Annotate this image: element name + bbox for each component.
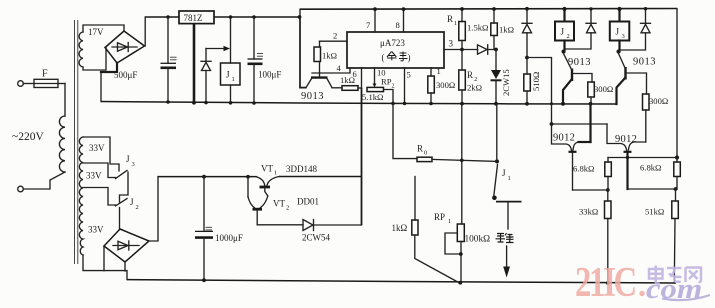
node 33k rail: [606, 281, 610, 285]
svg-text:510Ω: 510Ω: [531, 72, 541, 91]
wire tap3 step: [83, 188, 116, 206]
wire zener to J1 with arrow: [206, 46, 230, 51]
wire VT1 collector to 176-line: [279, 176, 362, 178]
svg-text:9013: 9013: [633, 57, 656, 68]
svg-text:1kΩ: 1kΩ: [499, 25, 514, 35]
svg-text:33kΩ: 33kΩ: [579, 207, 598, 217]
node R1 rail: [460, 7, 464, 11]
node pin7 rail: [373, 7, 377, 11]
node J3 collector: [617, 50, 621, 54]
node 1000uF bottom: [202, 278, 206, 282]
svg-text:3: 3: [449, 39, 454, 49]
node 300 bus: [589, 102, 593, 106]
svg-text:J: J: [616, 27, 620, 37]
svg-text:~220V: ~220V: [12, 131, 44, 143]
node RP1 rail: [458, 281, 462, 285]
bridge rectifier B1: [105, 31, 145, 63]
node rail step: [298, 15, 302, 19]
diode (above 510): [522, 9, 532, 58]
resistor 51k: [645, 189, 678, 283]
svg-text:RP: RP: [434, 212, 445, 222]
node pin5 bus: [403, 102, 407, 106]
transformer core: [75, 20, 78, 264]
svg-text:300Ω: 300Ω: [436, 80, 455, 90]
svg-text:VT: VT: [273, 199, 285, 209]
resistor 6.8k (ch1): [573, 158, 611, 191]
node diode/zener junction: [494, 48, 498, 52]
potentiometer RP1 100k: [434, 212, 490, 283]
node 9012 ch2 crossing: [626, 156, 629, 159]
svg-text:μA723: μA723: [380, 38, 405, 48]
zener diode near J1: [201, 49, 211, 103]
wire bridge1 + up to 17-rail: [144, 17, 147, 46]
resistor R1 1.5k: [447, 9, 488, 50]
resistor 1k (horizontal mid): [340, 75, 362, 90]
svg-text:R: R: [467, 70, 473, 80]
capacitor 100uF: [248, 17, 282, 103]
wire 300 node down to 9012: [589, 104, 591, 142]
node mid rail right: [675, 155, 679, 159]
svg-text:6: 6: [353, 69, 358, 79]
wire mid rail (y=157.5): [608, 157, 677, 159]
+V top rail: [300, 8, 677, 11]
node J2 rail: [562, 7, 566, 11]
node 500uF bottom: [166, 100, 170, 104]
svg-text:300Ω: 300Ω: [649, 96, 668, 106]
wire 17V bottom to bridge1 left: [83, 48, 106, 71]
resistor 1k (top right): [491, 9, 514, 50]
svg-text:(: (: [382, 53, 385, 63]
node J2 collector: [562, 50, 566, 54]
svg-text:8: 8: [396, 20, 400, 30]
svg-text:1: 1: [508, 175, 511, 182]
node J3 rail: [617, 7, 621, 11]
transformer primary winding: [59, 116, 65, 172]
wire 9013 collector to 1k: [332, 87, 342, 89]
node RP1 wiper tie: [459, 252, 463, 256]
svg-text:500μF: 500μF: [114, 70, 137, 80]
potentiometer RP2: [367, 77, 395, 104]
svg-text:J: J: [502, 168, 506, 178]
svg-text:21IC: 21IC: [575, 259, 635, 306]
wire bridge2 bottom down: [124, 262, 126, 271]
node pin8 rail: [402, 7, 406, 11]
svg-text:5: 5: [407, 70, 411, 80]
svg-text:1: 1: [448, 218, 451, 225]
node D1 rail: [589, 7, 592, 10]
pin 8 lead: [403, 9, 405, 32]
output arrow: [503, 246, 510, 278]
relay contact J2: [116, 197, 139, 211]
node 1000uF top: [202, 175, 206, 179]
svg-text:R: R: [447, 14, 453, 24]
node 33k junction: [606, 188, 610, 192]
svg-text:2: 2: [392, 84, 395, 90]
node D2 rail: [644, 7, 647, 10]
wire 510 node to 9012 bases: [527, 58, 552, 125]
svg-text:51kΩ: 51kΩ: [645, 207, 664, 217]
node J1 top: [229, 15, 233, 19]
node R2 bus: [460, 102, 464, 106]
pin 5 lead: [404, 68, 406, 104]
wire pin6 node drop (x=361.5): [361, 88, 363, 225]
node 9013 emitter bus: [561, 102, 565, 106]
label uA723 jinfen (metal can): [387, 52, 408, 61]
node 100uF bottom: [252, 101, 256, 105]
relay contact J1: [492, 104, 521, 229]
wire bridge2 left down: [103, 246, 105, 271]
wire pin3: [444, 49, 462, 51]
svg-text:33V: 33V: [88, 225, 104, 235]
svg-text:17V: 17V: [88, 27, 104, 37]
wire 9012 base run: [552, 123, 608, 125]
svg-text:2: 2: [567, 33, 570, 40]
relay coil J3: [610, 9, 630, 52]
svg-text:1.5kΩ: 1.5kΩ: [467, 23, 488, 33]
wire pin2: [320, 40, 348, 42]
node 1k rail: [492, 7, 496, 11]
transistor VT1 3DD148: [257, 164, 317, 197]
wire pin4 line: [312, 68, 350, 73]
wire bridge2 + right up to 176-line: [149, 177, 158, 241]
svg-text:2: 2: [136, 204, 139, 211]
relay coil J2: [555, 9, 574, 52]
resistor 300 (ch2): [643, 94, 669, 142]
svg-text:0: 0: [424, 150, 427, 157]
svg-text:F: F: [42, 69, 48, 80]
resistor 300 (pin1): [428, 76, 455, 104]
transistor 9013 (J3 driver): [617, 54, 657, 105]
bottom output rail: [127, 280, 676, 283]
transistor 9012 (ch1): [552, 124, 591, 190]
wire VT2 base drop: [247, 177, 249, 197]
svg-text:1: 1: [274, 170, 277, 177]
node 2CW15 bus: [494, 102, 498, 106]
wire J3 common down: [120, 172, 129, 202]
terminal top-left: [18, 81, 24, 87]
svg-text:1000μF: 1000μF: [215, 233, 243, 243]
resistor R0: [393, 103, 497, 161]
regulator 781Z: [179, 11, 214, 103]
node zener bottom: [204, 101, 208, 105]
wire VT2 emitter run: [257, 224, 303, 226]
wire 9013 emitter: [300, 87, 306, 89]
node 500uF top: [166, 15, 170, 19]
svg-text:33V: 33V: [86, 171, 102, 181]
17V winding: [79, 27, 104, 67]
node diode rail: [525, 7, 529, 11]
transistor 9013 (left of 723): [301, 73, 332, 102]
svg-text:781Z: 781Z: [184, 13, 203, 23]
node 5.1k bus: [391, 102, 395, 106]
capacitor 1000uF: [195, 177, 243, 281]
svg-text:3: 3: [132, 161, 135, 168]
svg-text:6.8kΩ: 6.8kΩ: [640, 163, 661, 173]
relay contact J3: [116, 154, 135, 179]
watermark com: [646, 273, 710, 304]
watermark 21IC: [575, 259, 645, 306]
node 510 top: [525, 56, 529, 60]
svg-text:3: 3: [622, 33, 625, 40]
svg-text:2: 2: [333, 31, 337, 41]
svg-text:9013: 9013: [568, 57, 591, 68]
transistor 9013 (J2 driver): [563, 54, 592, 104]
node pin3/R1/R2: [460, 48, 464, 52]
resistor 300 (ch1): [588, 82, 613, 104]
IC uA723: [347, 32, 444, 68]
resistor 510: [524, 58, 541, 104]
svg-text:9013: 9013: [301, 91, 324, 102]
terminal bottom-left: [18, 186, 24, 192]
svg-text:1kΩ: 1kΩ: [322, 51, 337, 61]
node R0/RP1 crossing: [460, 159, 464, 163]
wire tap2 step: [83, 163, 116, 178]
node 100uF top: [252, 15, 256, 19]
svg-text:6.8kΩ: 6.8kΩ: [573, 164, 594, 174]
node 510 bus: [525, 102, 529, 106]
relay coil J1: [221, 17, 241, 103]
wire fuse to primary: [64, 84, 66, 117]
node 9012 base wire: [550, 122, 554, 126]
wire J2 common to bridge2: [119, 208, 121, 230]
svg-text:VT: VT: [261, 164, 273, 174]
transistor VT2 DD01: [248, 196, 319, 225]
wire primary bottom to terminal: [23, 172, 65, 189]
pin 7 lead: [374, 9, 376, 32]
zener 2CW54: [302, 220, 362, 243]
svg-text:RP: RP: [381, 77, 392, 87]
diode pin3 to zener node: [462, 45, 496, 54]
bridge rectifier B2: [104, 229, 149, 262]
wire raw DC line (y=176): [158, 176, 257, 178]
flyback diode D2: [620, 9, 651, 50]
svg-text:3DD148: 3DD148: [286, 164, 317, 174]
resistor R2 2k: [459, 50, 482, 104]
wire top rail step: [299, 9, 301, 17]
fuse F: [23, 69, 65, 88]
resistor 6.8k (ch2): [640, 158, 680, 190]
svg-text:J: J: [130, 197, 134, 207]
capacitor 500uF: [114, 17, 177, 102]
svg-text:100μF: 100μF: [258, 70, 281, 80]
svg-text:2CW54: 2CW54: [302, 233, 330, 243]
svg-text:2kΩ: 2kΩ: [467, 83, 482, 93]
svg-text:R: R: [417, 144, 423, 154]
wire 17V top to bridge1 top: [83, 25, 124, 32]
svg-text:J: J: [561, 27, 565, 37]
svg-text:2CW15: 2CW15: [501, 69, 511, 96]
node VT2 base feed: [246, 175, 250, 179]
ground bus (horizontal): [101, 102, 616, 105]
svg-text:1: 1: [232, 76, 235, 83]
svg-text:100kΩ: 100kΩ: [465, 235, 491, 245]
wire right edge drop: [676, 9, 678, 158]
svg-text:9012: 9012: [615, 134, 637, 145]
svg-text:300Ω: 300Ω: [594, 84, 613, 94]
wire 9012ch1 to 33k: [573, 189, 608, 191]
svg-text:7: 7: [366, 20, 371, 30]
node 51k junction: [674, 187, 678, 191]
wire emitter feed drop (x=300): [300, 17, 306, 88]
resistor 1k (pin2): [314, 41, 337, 73]
pin 10 lead: [374, 68, 376, 84]
svg-text:9012: 9012: [553, 133, 575, 144]
zener 2CW15: [491, 50, 512, 104]
svg-text:5.1kΩ: 5.1kΩ: [362, 92, 383, 102]
node R0/J1 junction: [495, 159, 499, 163]
resistor 33k: [579, 190, 611, 283]
pin 6 lead: [361, 68, 363, 88]
svg-text:J: J: [226, 70, 230, 80]
svg-text:DD01: DD01: [297, 197, 319, 207]
wire bridge1 - down to bus: [101, 63, 117, 72]
resistor 1k (sense): [392, 177, 460, 283]
watermark dianziwang: [649, 266, 701, 284]
svg-text:1kΩ: 1kΩ: [392, 223, 408, 233]
wire tap1 step: [83, 137, 119, 171]
transistor 9012 (ch2): [607, 124, 646, 189]
wire R2 node down to RP1: [461, 104, 463, 224]
wire 33V bottom: [83, 255, 127, 280]
svg-text:2: 2: [286, 205, 289, 212]
svg-text:): ): [408, 53, 411, 63]
wire 12V rail (y=17): [145, 16, 300, 18]
pin 1 lead: [430, 68, 432, 76]
node crossover bus: [550, 102, 553, 105]
svg-text:1: 1: [454, 20, 457, 27]
flyback diode D1: [565, 9, 596, 49]
svg-text:33V: 33V: [89, 143, 105, 153]
node 781Z gnd at bus: [192, 101, 196, 105]
svg-text:1: 1: [437, 66, 441, 76]
node J1 bottom: [229, 101, 233, 105]
label 100kOhm shuchu (output): [496, 233, 514, 243]
svg-text:4: 4: [337, 63, 342, 73]
node 300 bus: [429, 102, 433, 106]
svg-text:J: J: [126, 154, 130, 164]
33V secondary winding: [79, 137, 83, 255]
wire 9012ch2 to 51k: [628, 188, 678, 190]
